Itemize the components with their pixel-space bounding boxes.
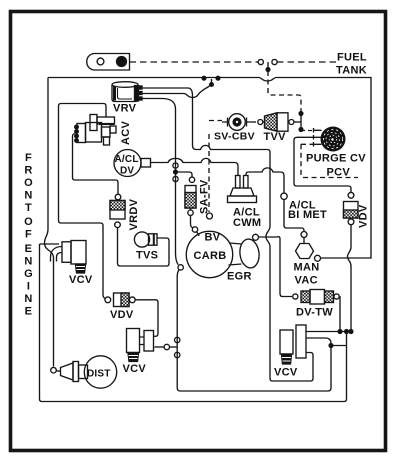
svg-text:PURGE CV: PURGE CV: [306, 153, 366, 165]
wire: [300, 114, 302, 130]
svg-text:VCV: VCV: [274, 367, 298, 379]
junction: [210, 83, 214, 87]
junction bus: [216, 76, 220, 80]
svg-text:I: I: [27, 281, 30, 293]
wire dashed fuel branch to purge: [268, 71, 301, 112]
A/CL CWM motor: [228, 176, 257, 203]
junction bus: [202, 76, 206, 80]
node on fuel line: [272, 59, 277, 64]
DV-TW valve: [293, 290, 340, 305]
ACV valve: [75, 115, 116, 146]
svg-text:PCV: PCV: [327, 167, 351, 179]
node center bus: [175, 352, 180, 357]
PURGE CV canister: [314, 127, 346, 152]
svg-text:VDV: VDV: [110, 309, 134, 321]
svg-text:BI MET: BI MET: [288, 209, 327, 221]
svg-text:F: F: [25, 152, 32, 164]
svg-text:CARB: CARB: [194, 250, 227, 262]
svg-text:DV: DV: [120, 166, 134, 177]
VCV valve 1: [51, 241, 87, 274]
node on fuel line: [258, 59, 263, 64]
wire ACV inlet from VRV-box: [59, 104, 107, 299]
wire VRDV to TVS: [118, 228, 170, 267]
node carb lower-left: [178, 265, 183, 270]
node center bus: [175, 337, 180, 342]
svg-text:F: F: [25, 229, 32, 241]
svg-text:ACV: ACV: [120, 121, 132, 145]
wire VDV down with hop: [348, 225, 352, 332]
VRDV valve: [110, 194, 125, 227]
node: [289, 120, 294, 125]
node BI MET: [281, 193, 287, 199]
label FRONT OF ENGINE: [24, 152, 33, 318]
DIST distributor: [51, 356, 117, 388]
junction: [349, 330, 353, 334]
svg-text:R: R: [24, 165, 32, 177]
junction fuel tee: [267, 62, 269, 69]
svg-text:N: N: [24, 256, 32, 268]
svg-text:G: G: [24, 268, 33, 280]
SV-CBV valve: [222, 114, 252, 131]
SA-FV separator: [173, 163, 199, 236]
svg-text:E: E: [25, 243, 33, 255]
node MAN VAC right: [315, 255, 321, 261]
svg-text:MAN: MAN: [294, 262, 320, 274]
MAN VAC hexagon: [296, 238, 314, 259]
svg-text:VAC: VAC: [295, 275, 318, 287]
wire VRV port2 to bus: [142, 79, 212, 98]
wire A/CL DV to CWM (wire B): [151, 158, 239, 175]
wire dashed to purge top port: [301, 130, 312, 132]
wire top bus: [48, 78, 371, 259]
svg-text:BV: BV: [205, 232, 221, 244]
svg-text:VCV: VCV: [69, 274, 93, 286]
wire TVV to purge drop: [294, 121, 301, 123]
svg-text:T: T: [25, 202, 32, 214]
node: [258, 120, 263, 125]
wire dashed to TVV: [252, 121, 257, 123]
wire VCV2 right port: [155, 346, 165, 348]
svg-text:SA-FV: SA-FV: [199, 179, 211, 214]
svg-text:N: N: [24, 293, 32, 305]
svg-text:N: N: [24, 190, 32, 202]
wire left frame to DIST drop: [45, 78, 54, 367]
VRV valve: [112, 82, 142, 102]
wire dashed SV-CBV branch: [208, 134, 210, 212]
svg-text:VDV: VDV: [358, 204, 370, 228]
wire DV-TW right down: [339, 297, 341, 332]
svg-text:FUEL: FUEL: [337, 52, 367, 64]
wire bottom frame: [40, 244, 347, 402]
wire VRV port1 down (wire A): [142, 88, 313, 381]
wire purge mid port to VDV: [294, 137, 351, 192]
svg-text:VRDV: VRDV: [128, 198, 140, 230]
wire VCV3 top port bus: [306, 331, 352, 333]
junction: [345, 330, 349, 334]
svg-text:TVV: TVV: [264, 131, 287, 143]
svg-text:VCV: VCV: [123, 363, 147, 375]
junction: [329, 344, 333, 348]
svg-text:O: O: [24, 216, 33, 228]
wire VCV3 mid port to frame: [306, 338, 347, 346]
wire BI MET to MAN VAC: [284, 200, 304, 232]
EGR valve: [229, 234, 261, 269]
node carb top: [207, 213, 213, 219]
svg-text:VRV: VRV: [113, 103, 137, 115]
TVV valve: [263, 113, 289, 131]
svg-text:TVS: TVS: [136, 250, 158, 262]
svg-text:A/CL: A/CL: [115, 154, 139, 165]
A/CL DV valve: [114, 150, 151, 177]
VDV valve horizontal: [105, 293, 135, 307]
wire EGR to DV-TW: [259, 237, 293, 297]
svg-text:DIST: DIST: [87, 369, 111, 380]
junction: [299, 112, 303, 116]
wire VRV port3 to center bus: [142, 99, 178, 265]
check valve (fuel tank): [87, 54, 130, 71]
svg-text:O: O: [24, 177, 33, 189]
svg-text:TANK: TANK: [336, 65, 367, 77]
wire VDV to VCV2: [135, 300, 158, 337]
junction: [299, 128, 303, 132]
wire ACV left stub down to VRDV: [73, 134, 119, 195]
VCV valve 2: [127, 329, 154, 362]
junction: [338, 330, 342, 334]
svg-text:EGR: EGR: [227, 271, 252, 283]
svg-text:E: E: [25, 306, 33, 318]
wire fuel tank dashed: [130, 61, 259, 63]
wire dashed purge box: [301, 144, 358, 177]
node MAN VAC top: [301, 232, 307, 238]
svg-text:DV-TW: DV-TW: [296, 307, 333, 319]
svg-text:CWM: CWM: [233, 217, 261, 229]
BV CARB: [186, 231, 232, 277]
VDV valve right: [344, 192, 359, 224]
VCV valve 3: [280, 325, 306, 364]
svg-text:SV-CBV: SV-CBV: [214, 131, 255, 143]
wire CWM port2 to BI MET (wire C): [246, 168, 284, 193]
TVS sensor: [134, 232, 157, 247]
